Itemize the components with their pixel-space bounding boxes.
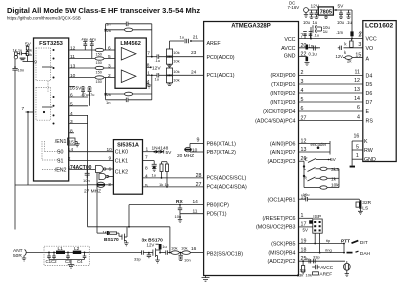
svg-text:3: 3 — [70, 119, 73, 125]
svg-text:E: E — [366, 109, 370, 115]
svg-text:10k: 10k — [173, 69, 179, 74]
svg-text:Digital All Mode 5W Class-E HF: Digital All Mode 5W Class-E HF transceiv… — [7, 6, 200, 15]
svg-text:K: K — [364, 139, 368, 145]
svg-text:PC0(ADC0): PC0(ADC0) — [207, 55, 235, 61]
svg-text:9: 9 — [197, 137, 200, 143]
svg-text:10k: 10k — [173, 50, 179, 55]
svg-text:6: 6 — [357, 105, 360, 111]
svg-text:16: 16 — [70, 85, 76, 91]
svg-text:D7: D7 — [366, 100, 373, 106]
svg-text:33p: 33p — [134, 256, 141, 261]
svg-text:10u: 10u — [303, 20, 311, 25]
svg-text:VO: VO — [366, 46, 374, 52]
svg-text:7-16V: 7-16V — [288, 5, 300, 10]
svg-text:11: 11 — [355, 69, 361, 75]
svg-text:ATMEGA328P: ATMEGA328P — [231, 24, 271, 30]
svg-text:9: 9 — [109, 156, 112, 162]
svg-text:1k: 1k — [159, 182, 163, 187]
svg-text:PC5(ADC5/SCL): PC5(ADC5/SCL) — [207, 176, 247, 182]
svg-text:LS: LS — [362, 205, 368, 211]
svg-text:VCC: VCC — [366, 37, 377, 43]
svg-text:150: 150 — [96, 71, 102, 75]
svg-text:1n: 1n — [106, 100, 110, 105]
svg-text:(AIN0)PD6: (AIN0)PD6 — [270, 141, 296, 147]
svg-text:1u: 1u — [313, 20, 318, 25]
svg-text:50R: 50R — [13, 253, 22, 259]
svg-text:(OC1A)PB1: (OC1A)PB1 — [268, 197, 296, 203]
svg-text:SI5351A: SI5351A — [117, 143, 139, 149]
svg-text:7805: 7805 — [320, 9, 332, 15]
svg-text:(XCK/T0)PD4: (XCK/T0)PD4 — [263, 109, 295, 115]
svg-text:.1u: .1u — [155, 58, 161, 63]
svg-text:10k: 10k — [306, 272, 312, 277]
svg-text:10k: 10k — [331, 183, 339, 189]
svg-text:D4: D4 — [366, 73, 373, 79]
svg-text:https://github.com/threeme3/QC: https://github.com/threeme3/QCX-SSB — [7, 16, 81, 21]
svg-text:3: 3 — [358, 42, 361, 48]
svg-text:10n: 10n — [83, 178, 90, 183]
svg-text:10k: 10k — [171, 245, 177, 250]
svg-text:CLK2: CLK2 — [115, 170, 128, 176]
svg-text:RS: RS — [366, 119, 374, 125]
svg-text:7: 7 — [145, 154, 148, 160]
svg-text:10: 10 — [192, 147, 198, 153]
svg-text:C4: C4 — [77, 259, 83, 264]
svg-text:D5: D5 — [366, 82, 373, 88]
svg-text:A: A — [366, 57, 370, 63]
svg-text:5V: 5V — [330, 157, 337, 163]
svg-text:82k: 82k — [105, 28, 111, 33]
svg-text:PB7(XTAL2): PB7(XTAL2) — [207, 150, 237, 156]
svg-text:BS170: BS170 — [104, 237, 119, 243]
svg-text:1k: 1k — [331, 176, 337, 182]
svg-text:(TXD)PD1: (TXD)PD1 — [271, 82, 295, 88]
svg-text:S1: S1 — [57, 158, 64, 164]
svg-text:AREF: AREF — [207, 41, 222, 47]
svg-text:10k: 10k — [173, 77, 179, 82]
svg-text:12: 12 — [70, 46, 76, 52]
svg-text:8: 8 — [70, 128, 73, 134]
svg-text:PB2(SS/OC1B): PB2(SS/OC1B) — [207, 251, 244, 257]
svg-text:5V: 5V — [303, 227, 308, 232]
svg-text:PC1(ADC1): PC1(ADC1) — [207, 73, 235, 79]
svg-text:(INT1)PD3: (INT1)PD3 — [270, 100, 295, 106]
svg-text:5V: 5V — [338, 4, 345, 10]
svg-text:14: 14 — [193, 199, 199, 205]
svg-text:1n: 1n — [106, 22, 110, 27]
svg-text:20 MHZ: 20 MHZ — [177, 153, 194, 159]
svg-text:6: 6 — [109, 167, 112, 173]
svg-text:5: 5 — [70, 101, 73, 107]
svg-text:74ACT00: 74ACT00 — [70, 165, 92, 171]
svg-text:1u: 1u — [162, 244, 166, 249]
svg-text:PD5(T1): PD5(T1) — [207, 212, 227, 218]
svg-text:2: 2 — [108, 73, 111, 79]
svg-text:6: 6 — [70, 93, 73, 99]
svg-text:5: 5 — [145, 183, 148, 189]
svg-text:D6: D6 — [366, 91, 373, 97]
svg-text:6: 6 — [108, 46, 111, 52]
svg-text:S0: S0 — [57, 149, 64, 155]
svg-text:27 MHZ: 27 MHZ — [84, 188, 101, 194]
svg-text:CLK1: CLK1 — [115, 159, 128, 165]
svg-text:FST3253: FST3253 — [39, 41, 64, 47]
svg-text:3k3: 3k3 — [331, 167, 339, 173]
svg-text:16: 16 — [191, 246, 197, 252]
svg-text:10u: 10u — [337, 20, 345, 25]
svg-text:CLK0: CLK0 — [115, 150, 128, 156]
svg-text:10n: 10n — [184, 258, 191, 263]
svg-text:(AIN1)PD7: (AIN1)PD7 — [270, 150, 296, 156]
svg-text:.1u: .1u — [314, 33, 320, 38]
svg-text:GND: GND — [364, 157, 376, 163]
svg-text:2: 2 — [359, 31, 362, 37]
svg-text:DIT: DIT — [360, 240, 368, 246]
svg-text:1u: 1u — [152, 172, 156, 177]
svg-text:LCD1602: LCD1602 — [365, 23, 394, 30]
svg-text:.1u: .1u — [346, 20, 352, 25]
svg-text:PB0(ICP): PB0(ICP) — [207, 202, 230, 208]
svg-text:5V: 5V — [166, 150, 173, 156]
svg-text:14: 14 — [68, 147, 74, 153]
svg-text:0.1u: 0.1u — [309, 51, 318, 56]
svg-text:12V: 12V — [152, 65, 161, 71]
svg-text:10: 10 — [107, 147, 113, 153]
svg-text:21: 21 — [193, 35, 199, 41]
svg-text:E: E — [305, 156, 308, 162]
svg-text:.47u: .47u — [81, 38, 88, 42]
svg-text:(ADC3)PC3: (ADC3)PC3 — [268, 159, 296, 165]
svg-text:AREF: AREF — [319, 271, 332, 277]
svg-text:11: 11 — [70, 54, 75, 60]
svg-text:1k: 1k — [165, 182, 169, 187]
svg-text:3: 3 — [108, 182, 111, 188]
svg-text:12: 12 — [354, 78, 360, 84]
svg-text:10k: 10k — [181, 245, 187, 250]
svg-text:DAH: DAH — [360, 251, 371, 257]
svg-text:/EN2: /EN2 — [55, 167, 67, 173]
svg-text:(ADC4/SDA)PC4: (ADC4/SDA)PC4 — [255, 118, 295, 124]
svg-text:VCC: VCC — [284, 37, 295, 43]
svg-text:7: 7 — [22, 106, 25, 112]
svg-text:/EN1: /EN1 — [55, 139, 67, 145]
svg-text:150: 150 — [96, 61, 102, 65]
svg-text:.1m: .1m — [336, 30, 343, 35]
svg-text:33p: 33p — [313, 255, 320, 260]
svg-text:2: 2 — [68, 156, 71, 162]
svg-text:7: 7 — [147, 51, 150, 57]
svg-text:4: 4 — [145, 173, 148, 179]
svg-text:(MISO)PB4: (MISO)PB4 — [268, 250, 295, 256]
svg-text:11: 11 — [193, 208, 198, 214]
svg-text:15: 15 — [69, 140, 75, 146]
svg-text:1u: 1u — [323, 29, 328, 34]
svg-text:23: 23 — [191, 50, 197, 56]
svg-text:RW: RW — [364, 148, 373, 154]
svg-text:(/RESET)PC6: (/RESET)PC6 — [263, 216, 296, 222]
svg-text:(MOSI/OC2)PB3: (MOSI/OC2)PB3 — [256, 225, 295, 231]
svg-text:12V: 12V — [147, 243, 155, 248]
svg-text:13: 13 — [70, 64, 76, 70]
svg-text:encoder: encoder — [311, 142, 327, 147]
svg-text:150: 150 — [96, 80, 102, 84]
svg-text:(ADC2)PC2: (ADC2)PC2 — [268, 259, 296, 265]
svg-text:3: 3 — [108, 64, 111, 70]
svg-text:(SCK)PB5: (SCK)PB5 — [271, 241, 295, 247]
svg-text:8: 8 — [145, 166, 148, 172]
svg-text:.47u: .47u — [87, 93, 94, 97]
svg-text:AVCC: AVCC — [281, 46, 295, 52]
svg-text:C2: C2 — [51, 259, 57, 264]
svg-text:10: 10 — [70, 73, 76, 79]
svg-text:PB6(XTAL1): PB6(XTAL1) — [207, 141, 237, 147]
svg-text:1u: 1u — [155, 77, 159, 82]
svg-text:PTT: PTT — [341, 238, 350, 244]
svg-text:5: 5 — [108, 54, 111, 60]
svg-text:32R: 32R — [362, 200, 371, 206]
svg-text:(INT0)PD2: (INT0)PD2 — [270, 91, 295, 97]
svg-text:12V: 12V — [311, 4, 320, 10]
svg-text:1: 1 — [356, 153, 359, 159]
svg-text:(RXD)PD0: (RXD)PD0 — [270, 73, 295, 79]
svg-text:GND: GND — [284, 53, 296, 59]
svg-text:24: 24 — [191, 69, 197, 75]
svg-text:LM4562: LM4562 — [120, 41, 141, 47]
svg-text:PC4(ADC4/SDA): PC4(ADC4/SDA) — [207, 185, 248, 191]
svg-text:150: 150 — [96, 53, 102, 57]
svg-text:AVCC: AVCC — [320, 265, 334, 271]
svg-text:4: 4 — [70, 111, 73, 117]
svg-text:16: 16 — [353, 134, 359, 140]
svg-text:10n: 10n — [18, 68, 25, 73]
svg-text:82k: 82k — [105, 92, 111, 97]
svg-text:1k: 1k — [103, 229, 107, 234]
svg-text:10k: 10k — [173, 58, 179, 63]
svg-text:4: 4 — [357, 115, 360, 121]
svg-text:10u: 10u — [303, 192, 310, 197]
svg-text:C3: C3 — [65, 259, 71, 264]
svg-text:.47u: .47u — [89, 38, 96, 42]
svg-text:14: 14 — [354, 96, 360, 102]
svg-text:13k: 13k — [297, 272, 303, 277]
svg-text:13: 13 — [354, 87, 360, 93]
svg-text:ring: ring — [325, 247, 332, 252]
svg-text:12V: 12V — [336, 54, 344, 59]
svg-text:1u: 1u — [180, 35, 184, 40]
